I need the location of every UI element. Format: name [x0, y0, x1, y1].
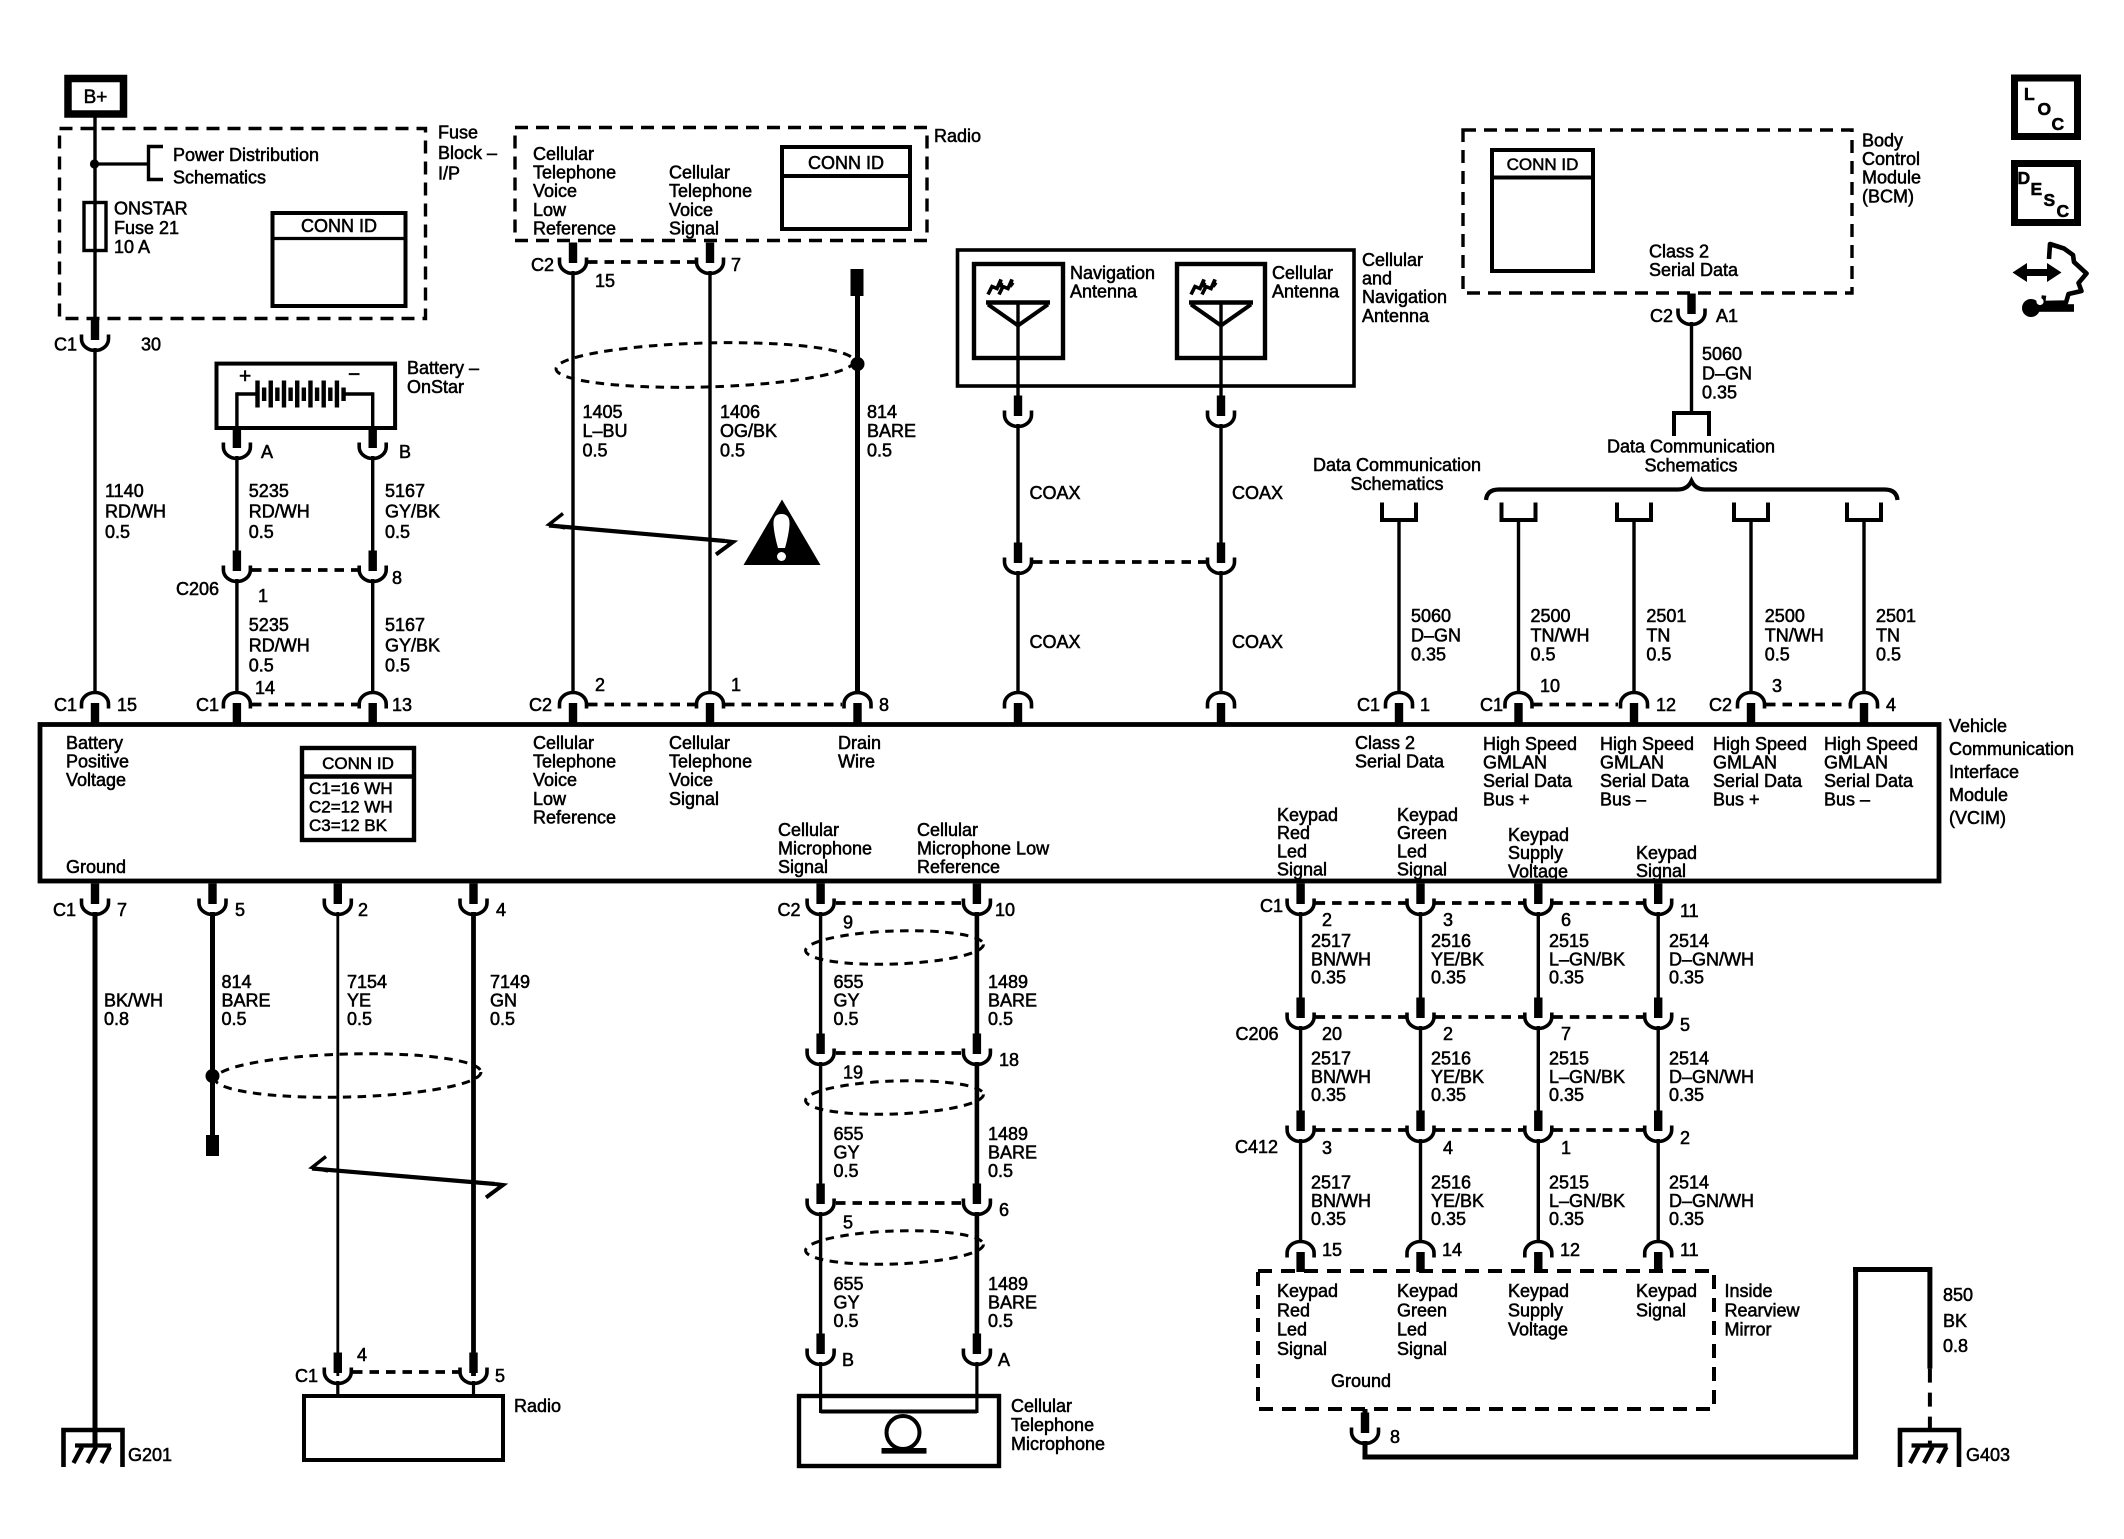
- svg-text:Vehicle: Vehicle: [1949, 716, 2007, 736]
- svg-text:Led: Led: [1397, 1320, 1427, 1340]
- wire 5167 GY/BK 0.5 lower: [371, 579, 374, 693]
- svg-text:4: 4: [1443, 1138, 1453, 1158]
- wire 1405 L-BU 0.5: [571, 271, 574, 693]
- svg-text:2514: 2514: [1669, 1173, 1709, 1193]
- svg-text:TN: TN: [1646, 625, 1670, 645]
- wire 1489 BARE 0.5 seg2: [975, 1062, 980, 1185]
- svg-text:814: 814: [222, 972, 252, 992]
- svg-text:I/P: I/P: [438, 163, 460, 183]
- off-page bracket Power Distribution: [149, 147, 164, 180]
- svg-text:GY/BK: GY/BK: [385, 635, 440, 655]
- svg-text:−: −: [348, 363, 360, 386]
- svg-text:Body: Body: [1862, 131, 1903, 151]
- svg-text:15: 15: [1322, 1240, 1342, 1260]
- svg-text:BN/WH: BN/WH: [1311, 1191, 1371, 1211]
- svg-text:0.35: 0.35: [1311, 1209, 1346, 1229]
- svg-text:Reference: Reference: [917, 857, 1000, 877]
- wire 1406 OG/BK 0.5: [708, 271, 711, 693]
- dashed link 10-12: [1533, 703, 1618, 707]
- svg-text:11: 11: [1680, 901, 1699, 921]
- svg-text:Antenna: Antenna: [1070, 282, 1138, 302]
- svg-text:2: 2: [1680, 1128, 1690, 1148]
- svg-text:Voice: Voice: [669, 200, 713, 220]
- wire into radio box left: [336, 1381, 339, 1398]
- svg-text:Data Communication: Data Communication: [1607, 437, 1775, 457]
- svg-text:C2: C2: [531, 255, 554, 275]
- svg-text:YE/BK: YE/BK: [1431, 1191, 1484, 1211]
- battery positive lead: [237, 392, 257, 395]
- connector C1 pin 15 VCIM: [82, 693, 109, 709]
- connector pin 5 radio bottom: [469, 1353, 477, 1374]
- svg-text:0.35: 0.35: [1311, 1085, 1346, 1105]
- svg-text:TN/WH: TN/WH: [1765, 625, 1824, 645]
- shield twisted ellipse radio wires: [555, 339, 854, 391]
- svg-text:G403: G403: [1966, 1445, 2010, 1465]
- battery cell plates: [255, 381, 259, 408]
- svg-text:C1: C1: [1480, 695, 1503, 715]
- svg-text:6: 6: [999, 1200, 1009, 1220]
- shield ellipse mic 2: [805, 1078, 984, 1117]
- wire GMLAN serial data: [1862, 520, 1865, 693]
- svg-text:Signal: Signal: [1277, 860, 1327, 880]
- svg-text:Inside: Inside: [1725, 1281, 1773, 1301]
- connector pin 12 VCIM: [1621, 693, 1648, 709]
- svg-text:Bus –: Bus –: [1600, 790, 1646, 810]
- svg-text:Signal: Signal: [1397, 860, 1447, 880]
- icon DESC box: [2015, 164, 2078, 223]
- svg-text:TN: TN: [1876, 625, 1900, 645]
- svg-text:11: 11: [1680, 1240, 1699, 1260]
- off-page bracket GMLAN drop: [1734, 503, 1768, 521]
- svg-text:Fuse: Fuse: [438, 123, 478, 143]
- svg-text:12: 12: [1656, 695, 1676, 715]
- svg-text:0.5: 0.5: [1646, 645, 1671, 665]
- svg-text:C: C: [2052, 114, 2065, 134]
- svg-text:20: 20: [1322, 1024, 1342, 1044]
- dashed box Body Control Module BCM: [1463, 130, 1852, 293]
- svg-text:Battery: Battery: [66, 733, 123, 753]
- svg-text:(BCM): (BCM): [1862, 186, 1914, 206]
- svg-text:10: 10: [1540, 676, 1560, 696]
- svg-text:8: 8: [879, 695, 889, 715]
- dashed link antenna connectors: [1033, 560, 1206, 564]
- svg-text:0.8: 0.8: [104, 1009, 129, 1029]
- svg-text:5235: 5235: [249, 481, 289, 501]
- svg-text:1489: 1489: [988, 972, 1028, 992]
- svg-text:Keypad: Keypad: [1508, 1281, 1569, 1301]
- svg-text:CONN ID: CONN ID: [1507, 155, 1579, 174]
- svg-text:0.5: 0.5: [1876, 645, 1901, 665]
- svg-text:Signal: Signal: [1277, 1339, 1327, 1359]
- svg-text:Serial Data: Serial Data: [1483, 771, 1573, 791]
- svg-text:Signal: Signal: [1397, 1339, 1447, 1359]
- svg-text:2517: 2517: [1311, 1049, 1351, 1069]
- box Cellular and Navigation Antenna: [958, 250, 1355, 386]
- svg-text:0.5: 0.5: [222, 1009, 247, 1029]
- svg-text:Schematics: Schematics: [173, 168, 266, 188]
- connector C206 keypad row: [1296, 998, 1304, 1019]
- svg-text:Module: Module: [1949, 785, 2008, 805]
- svg-text:Class 2: Class 2: [1355, 733, 1415, 753]
- svg-text:Radio: Radio: [514, 1396, 561, 1416]
- wire 1489 BARE 0.5 seg3: [975, 1212, 980, 1335]
- wire 7149 GN 0.5: [471, 912, 476, 1376]
- connector C1 pin 30: [91, 320, 99, 341]
- dashed link 9-10: [836, 901, 962, 905]
- svg-text:Green: Green: [1397, 823, 1447, 843]
- svg-text:BARE: BARE: [867, 421, 916, 441]
- svg-text:Low: Low: [533, 200, 567, 220]
- svg-text:1140: 1140: [105, 481, 144, 501]
- svg-text:GY: GY: [834, 1293, 860, 1313]
- svg-text:0.35: 0.35: [1411, 645, 1446, 665]
- svg-text:30: 30: [141, 335, 161, 355]
- wire 5235 RD/WH 0.5 upper: [235, 456, 238, 553]
- wire GMLAN serial data: [1632, 520, 1635, 693]
- connector pin 4 below VCIM: [469, 884, 477, 905]
- connector C2 pin 3 VCIM: [1738, 693, 1765, 709]
- connector cell coax mid: [1217, 543, 1225, 564]
- svg-text:1489: 1489: [988, 1124, 1028, 1144]
- svg-text:0.5: 0.5: [249, 656, 274, 676]
- svg-text:Voice: Voice: [533, 770, 577, 790]
- svg-text:C2=12 WH: C2=12 WH: [309, 798, 393, 817]
- svg-text:Voice: Voice: [533, 181, 577, 201]
- svg-text:Rearview: Rearview: [1725, 1300, 1801, 1320]
- svg-text:GY: GY: [834, 991, 860, 1011]
- wire 5167 GY/BK 0.5 upper: [371, 456, 374, 553]
- svg-text:10 A: 10 A: [114, 237, 150, 257]
- svg-text:0.5: 0.5: [490, 1009, 515, 1029]
- svg-text:4: 4: [357, 1345, 367, 1365]
- wire GMLAN serial data: [1517, 520, 1520, 693]
- junction node 814 drain: [206, 1069, 220, 1083]
- svg-text:1: 1: [731, 675, 741, 695]
- fuse ONSTAR Fuse 21 10 A: [84, 203, 106, 251]
- connector pin A below battery: [233, 428, 241, 449]
- svg-text:5: 5: [235, 900, 245, 920]
- svg-text:Serial Data: Serial Data: [1600, 771, 1690, 791]
- svg-text:COAX: COAX: [1232, 483, 1283, 503]
- svg-text:0.5: 0.5: [834, 1009, 859, 1029]
- crossing zigzag arrow bottom: [312, 1157, 328, 1172]
- svg-text:0.35: 0.35: [1431, 1085, 1466, 1105]
- svg-text:Red: Red: [1277, 1300, 1310, 1320]
- svg-text:2514: 2514: [1669, 1049, 1709, 1069]
- coax wire cellular lower: [1219, 571, 1222, 693]
- svg-text:1: 1: [1561, 1138, 1571, 1158]
- svg-text:4: 4: [496, 900, 506, 920]
- svg-text:0.5: 0.5: [583, 440, 608, 460]
- svg-text:18: 18: [999, 1050, 1019, 1070]
- wire B+ to fuse and C1 pin 30: [93, 114, 96, 339]
- svg-text:GY: GY: [834, 1143, 860, 1163]
- svg-text:Microphone: Microphone: [778, 839, 872, 859]
- svg-text:Cellular: Cellular: [669, 163, 730, 183]
- svg-text:RD/WH: RD/WH: [249, 502, 310, 522]
- svg-text:BK: BK: [1943, 1311, 1967, 1331]
- svg-text:Cellular: Cellular: [1362, 250, 1423, 270]
- svg-text:Cellular: Cellular: [917, 820, 978, 840]
- wire into microphone right: [975, 1362, 978, 1413]
- wire into radio box right: [472, 1381, 475, 1398]
- svg-text:10: 10: [995, 900, 1015, 920]
- svg-text:0.5: 0.5: [867, 440, 892, 460]
- connector C1 keypad row: [1296, 884, 1304, 905]
- svg-text:0.5: 0.5: [385, 656, 410, 676]
- svg-text:Navigation: Navigation: [1070, 263, 1155, 283]
- CONN ID table in BCM: [1492, 150, 1593, 271]
- box Navigation Antenna: [974, 264, 1063, 358]
- svg-text:L–GN/BK: L–GN/BK: [1549, 1067, 1625, 1087]
- svg-text:0.35: 0.35: [1549, 1085, 1584, 1105]
- connector cell coax VCIM: [1208, 693, 1235, 709]
- coax wire cellular upper: [1219, 424, 1222, 546]
- svg-text:Bus +: Bus +: [1713, 790, 1760, 810]
- svg-text:Serial Data: Serial Data: [1355, 752, 1445, 772]
- svg-text:L–GN/BK: L–GN/BK: [1549, 949, 1625, 969]
- svg-text:CONN ID: CONN ID: [808, 153, 884, 173]
- svg-text:C1: C1: [295, 1366, 318, 1386]
- junction node on B+ feed: [90, 159, 99, 168]
- svg-text:15: 15: [595, 271, 615, 291]
- svg-text:C412: C412: [1235, 1137, 1278, 1157]
- connectors into keypad box: [1287, 1242, 1314, 1258]
- svg-text:Signal: Signal: [778, 857, 828, 877]
- svg-text:Voice: Voice: [669, 770, 713, 790]
- shield twisted ellipse bottom left: [214, 1051, 481, 1101]
- svg-text:BN/WH: BN/WH: [1311, 949, 1371, 969]
- svg-text:C206: C206: [176, 579, 219, 599]
- svg-text:High Speed: High Speed: [1713, 734, 1807, 754]
- svg-text:0.5: 0.5: [988, 1009, 1013, 1029]
- svg-text:L–GN/BK: L–GN/BK: [1549, 1191, 1625, 1211]
- svg-text:0.5: 0.5: [834, 1311, 859, 1331]
- wire 655 GY 0.5 seg1: [819, 912, 822, 1035]
- svg-text:Interface: Interface: [1949, 762, 2019, 782]
- microphone internal bus bar: [821, 1410, 977, 1414]
- wire 1489 BARE 0.5 seg1: [975, 912, 980, 1035]
- svg-text:D–GN/WH: D–GN/WH: [1669, 949, 1754, 969]
- svg-text:D: D: [2018, 168, 2031, 188]
- svg-text:GMLAN: GMLAN: [1713, 753, 1777, 773]
- svg-text:8: 8: [1390, 1427, 1400, 1447]
- svg-text:CONN ID: CONN ID: [322, 754, 394, 773]
- crossing zigzag arrow top: [549, 514, 565, 529]
- svg-text:Low: Low: [533, 789, 567, 809]
- connector pin 8 keypad ground: [1361, 1413, 1369, 1434]
- connector C206 pin 1: [233, 551, 241, 572]
- svg-text:2516: 2516: [1431, 1173, 1471, 1193]
- svg-text:Keypad: Keypad: [1277, 805, 1338, 825]
- svg-text:14: 14: [255, 678, 275, 698]
- svg-text:Positive: Positive: [66, 752, 129, 772]
- icon double arrow with outline: [2024, 269, 2050, 276]
- svg-text:D–GN/WH: D–GN/WH: [1669, 1191, 1754, 1211]
- navigation antenna feed wire: [1016, 302, 1019, 397]
- connector pin 10: [973, 884, 981, 905]
- svg-text:5: 5: [495, 1366, 505, 1386]
- svg-text:C2: C2: [529, 695, 552, 715]
- drain wire 814 BARE 0.5 top: [851, 269, 864, 296]
- svg-text:Led: Led: [1277, 1320, 1307, 1340]
- svg-text:OnStar: OnStar: [407, 377, 464, 397]
- keypad ground wire route to G403: [1363, 1409, 1368, 1418]
- svg-text:GY/BK: GY/BK: [385, 502, 440, 522]
- dashed box Inside Rearview Mirror keypad: [1258, 1271, 1714, 1409]
- svg-text:C1: C1: [196, 695, 219, 715]
- svg-text:+: +: [239, 365, 251, 388]
- svg-text:2: 2: [1443, 1024, 1453, 1044]
- svg-text:Navigation: Navigation: [1362, 287, 1447, 307]
- dashed box Fuse Block - I/P: [60, 129, 426, 319]
- svg-text:2500: 2500: [1531, 606, 1571, 626]
- svg-text:4: 4: [1886, 695, 1896, 715]
- connector C206 pin 8: [369, 551, 377, 572]
- svg-text:5235: 5235: [249, 615, 289, 635]
- wire 5235 RD/WH 0.5 lower: [235, 579, 238, 693]
- icon LOC box: [2015, 78, 2078, 137]
- svg-text:Led: Led: [1397, 841, 1427, 861]
- svg-text:Reference: Reference: [533, 807, 616, 827]
- svg-text:0.5: 0.5: [1765, 645, 1790, 665]
- svg-text:Signal: Signal: [1636, 1300, 1686, 1320]
- svg-text:Class 2: Class 2: [1649, 242, 1709, 262]
- svg-text:Bus –: Bus –: [1824, 790, 1870, 810]
- ground G201: [64, 1430, 123, 1467]
- connector C1 pin 7 below VCIM: [91, 884, 99, 905]
- dashed link radio C2: [588, 260, 695, 264]
- wire GMLAN serial data: [1749, 520, 1752, 693]
- wire into microphone left: [819, 1362, 822, 1413]
- brace over GMLAN drops: [1486, 481, 1898, 500]
- svg-text:3: 3: [1443, 910, 1453, 930]
- svg-text:C2: C2: [778, 900, 801, 920]
- svg-text:0.5: 0.5: [385, 522, 410, 542]
- svg-text:Green: Green: [1397, 1300, 1447, 1320]
- CONN ID table in VCIM: [302, 748, 414, 840]
- connector pin A mic: [973, 1334, 981, 1355]
- svg-text:High Speed: High Speed: [1600, 734, 1694, 754]
- svg-text:5167: 5167: [385, 481, 425, 501]
- svg-text:Ground: Ground: [1331, 1371, 1391, 1391]
- svg-text:Keypad: Keypad: [1277, 1281, 1338, 1301]
- svg-text:0.5: 0.5: [720, 440, 745, 460]
- connector C412 keypad row: [1296, 1111, 1304, 1132]
- dashed link C206: [252, 568, 358, 572]
- svg-text:7: 7: [117, 900, 127, 920]
- svg-text:COAX: COAX: [1232, 632, 1283, 652]
- svg-text:B: B: [842, 1350, 854, 1370]
- connector nav coax upper: [1014, 396, 1022, 417]
- svg-text:0.5: 0.5: [988, 1161, 1013, 1181]
- svg-text:Drain: Drain: [838, 733, 881, 753]
- svg-text:7154: 7154: [347, 972, 387, 992]
- svg-text:Telephone: Telephone: [1011, 1415, 1094, 1435]
- off-page bracket GMLAN drop: [1502, 503, 1536, 521]
- connector pin 6 mic: [973, 1184, 981, 1205]
- svg-text:Schematics: Schematics: [1644, 456, 1737, 476]
- svg-text:1: 1: [1420, 695, 1430, 715]
- svg-text:Cellular: Cellular: [1011, 1396, 1072, 1416]
- svg-text:3: 3: [1322, 1138, 1332, 1158]
- svg-text:5: 5: [843, 1213, 853, 1233]
- svg-text:Microphone: Microphone: [1011, 1434, 1105, 1454]
- svg-text:Signal: Signal: [669, 789, 719, 809]
- svg-text:A: A: [261, 442, 273, 462]
- svg-text:OG/BK: OG/BK: [720, 421, 777, 441]
- svg-text:L–BU: L–BU: [583, 421, 628, 441]
- drain wire 814 BARE 0.5 bottom: [210, 912, 215, 1135]
- svg-text:RD/WH: RD/WH: [249, 635, 310, 655]
- CONN ID table in radio: [782, 147, 910, 229]
- connector nav coax VCIM: [1005, 693, 1032, 709]
- svg-text:Serial Data: Serial Data: [1713, 771, 1803, 791]
- svg-text:GMLAN: GMLAN: [1483, 753, 1547, 773]
- svg-text:Voltage: Voltage: [1508, 1320, 1568, 1340]
- svg-text:C1: C1: [54, 335, 77, 355]
- connector pin B below battery: [369, 428, 377, 449]
- svg-text:2: 2: [358, 900, 368, 920]
- svg-text:D–GN: D–GN: [1702, 363, 1752, 383]
- svg-text:Keypad: Keypad: [1636, 843, 1697, 863]
- svg-text:YE/BK: YE/BK: [1431, 1067, 1484, 1087]
- wire 7154 YE 0.5: [336, 912, 339, 1376]
- svg-text:Reference: Reference: [533, 218, 616, 238]
- connector C2 pin 9: [816, 884, 824, 905]
- svg-text:Microphone Low: Microphone Low: [917, 839, 1050, 859]
- connector pin 8 VCIM: [844, 693, 871, 709]
- svg-text:0.8: 0.8: [1943, 1336, 1968, 1356]
- svg-text:Block –: Block –: [438, 143, 497, 163]
- svg-text:Wire: Wire: [838, 752, 875, 772]
- svg-text:2501: 2501: [1876, 606, 1916, 626]
- connector pin 2 below VCIM: [334, 884, 342, 905]
- svg-text:(VCIM): (VCIM): [1949, 808, 2006, 828]
- connector pin B mic: [816, 1334, 824, 1355]
- svg-text:Antenna: Antenna: [1272, 282, 1340, 302]
- svg-text:Voltage: Voltage: [1508, 861, 1568, 881]
- svg-text:3: 3: [1772, 676, 1782, 696]
- svg-text:2516: 2516: [1431, 1049, 1471, 1069]
- svg-text:A: A: [998, 1350, 1010, 1370]
- svg-text:C1: C1: [1357, 695, 1380, 715]
- svg-text:0.5: 0.5: [834, 1161, 859, 1181]
- svg-text:A1: A1: [1716, 306, 1738, 326]
- svg-text:13: 13: [392, 695, 412, 715]
- svg-text:6: 6: [1561, 910, 1571, 930]
- svg-text:19: 19: [843, 1063, 863, 1083]
- svg-text:TN/WH: TN/WH: [1531, 625, 1590, 645]
- svg-text:Supply: Supply: [1508, 843, 1563, 863]
- box Vehicle Communication Interface Module VCIM: [40, 725, 1939, 882]
- svg-text:C206: C206: [1236, 1024, 1279, 1044]
- svg-text:Communication: Communication: [1949, 739, 2074, 759]
- svg-text:2501: 2501: [1646, 606, 1686, 626]
- junction node drain wire: [851, 357, 865, 371]
- svg-text:C1: C1: [1260, 896, 1283, 916]
- svg-text:0.35: 0.35: [1311, 968, 1346, 988]
- svg-text:2: 2: [595, 675, 605, 695]
- svg-text:2: 2: [1322, 910, 1332, 930]
- svg-text:ONSTAR: ONSTAR: [114, 199, 188, 219]
- svg-text:2515: 2515: [1549, 931, 1589, 951]
- off-page bracket class 2 serial data: [1382, 503, 1416, 521]
- svg-text:Serial Data: Serial Data: [1649, 260, 1739, 280]
- wire 1140 RD/WH 0.5: [93, 348, 96, 693]
- svg-text:0.5: 0.5: [249, 522, 274, 542]
- svg-text:Telephone: Telephone: [533, 163, 616, 183]
